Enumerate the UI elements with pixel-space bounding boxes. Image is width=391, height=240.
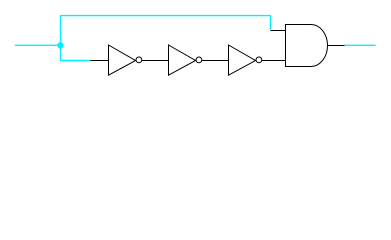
inverter U3 bubble — [256, 57, 262, 63]
inverter U2 triangle — [169, 45, 196, 75]
wire feedback loop: riser, top run, drop to AND top input — [61, 16, 271, 46]
wire output right cyan — [345, 44, 376, 46]
wire input left (cyan) — [15, 44, 61, 46]
wire AND top input stub black — [271, 30, 286, 32]
inverter U1 bubble — [136, 57, 142, 63]
inverter U2 bubble — [196, 57, 202, 63]
wire AND output black part — [328, 45, 345, 47]
wire lower leg black part to inverter 1 — [90, 60, 108, 62]
wire inverter 2 to inverter 3 — [202, 60, 229, 62]
wire inverter 1 to inverter 2 — [142, 60, 169, 62]
inverter U3 triangle — [229, 45, 256, 75]
wire lower branch: down leg and run to inverter 1 (cyan part) — [61, 45, 91, 60]
node junction dot — [57, 42, 63, 48]
wire inverter 3 to AND bottom input — [262, 60, 286, 62]
inverter U1 triangle — [109, 45, 136, 75]
and-gate U4 body — [286, 25, 328, 67]
